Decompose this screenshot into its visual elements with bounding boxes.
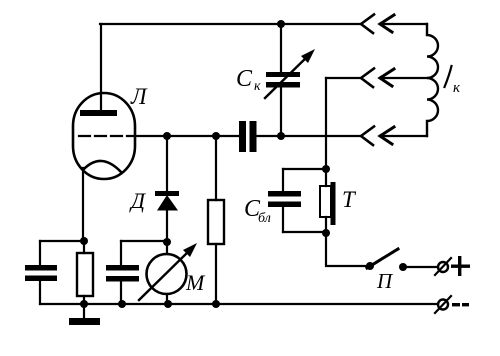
connector chevrons top tap	[361, 15, 374, 34]
svg-text:М: М	[185, 270, 206, 295]
capacitor Ck variable arrow	[265, 55, 309, 98]
svg-text:Л: Л	[130, 84, 148, 109]
node C2 bottom	[118, 300, 126, 308]
switch П pivot node	[366, 262, 374, 270]
resistor R2 leads	[215, 136, 217, 304]
wire top tap to coil	[380, 23, 427, 25]
wire grid line to bottom tap	[256, 135, 360, 137]
wire switch to plus terminal	[404, 266, 438, 268]
diode Д cathode bar	[155, 191, 179, 196]
terminal plus circle	[438, 262, 448, 272]
tube anode bar	[80, 110, 117, 116]
capacitor Ck branch wire	[280, 24, 282, 136]
tube grid (dashed)	[79, 135, 135, 137]
switch П lever	[367, 249, 398, 268]
node top junction at Ck	[277, 20, 285, 28]
wire top horizontal (anode to top tap)	[100, 23, 360, 25]
node grid-diode junction	[163, 132, 171, 140]
svg-text:C: C	[236, 66, 253, 92]
label plus sign	[458, 256, 461, 276]
terminal minus slash	[435, 296, 451, 313]
terminal plus slash	[435, 258, 451, 275]
capacitor C1 plates	[25, 265, 57, 271]
diode Д lower lead	[166, 210, 168, 242]
wire anode lead	[100, 24, 102, 110]
node T top	[322, 165, 330, 173]
wire middle tap drop (x=326)	[325, 78, 327, 169]
node grid-R2 junction	[212, 132, 220, 140]
node M bottom	[164, 300, 172, 308]
node T bottom	[322, 229, 330, 237]
wire Cbl bottom horizontal	[283, 231, 326, 233]
op tube Л envelope	[73, 93, 135, 179]
resistor R1 leads	[83, 241, 85, 304]
capacitor Cbl branch	[282, 169, 284, 232]
connector chevrons bottom tap	[361, 127, 374, 146]
node at Ck bottom	[277, 132, 285, 140]
label minus sign	[452, 303, 460, 306]
resistor R2 body	[208, 200, 224, 244]
switch П right contact node	[399, 263, 407, 271]
terminal minus circle	[438, 300, 448, 310]
svg-text:T: T	[342, 187, 357, 212]
wire bottom rail	[40, 303, 438, 305]
capacitor C2 branch	[120, 241, 122, 304]
svg-text:к: к	[453, 80, 461, 96]
label lk	[445, 66, 452, 87]
earphone T thick side bar	[331, 182, 336, 225]
node diode bottom junction	[163, 238, 171, 246]
capacitor Cbl plates	[268, 191, 301, 197]
inductor Lk coil	[427, 24, 438, 136]
diode Д triangle	[157, 195, 178, 211]
earphone T leads	[325, 169, 327, 233]
svg-text:бл: бл	[258, 211, 271, 226]
node ground junction	[80, 300, 88, 308]
wire cathode lead	[82, 168, 84, 241]
capacitor Ck plates	[266, 72, 300, 77]
microphone M arrow	[139, 249, 191, 300]
node cathode junction	[80, 237, 88, 245]
resistor R1 body	[77, 253, 93, 296]
capacitor C2 plates	[106, 265, 139, 271]
wire middle tap	[326, 77, 360, 79]
wire node to C2	[121, 240, 167, 242]
diode Д lead	[166, 136, 168, 191]
svg-text:П: П	[376, 269, 394, 293]
svg-text:Д: Д	[129, 188, 146, 213]
capacitor C1 branch	[39, 241, 41, 304]
ground bar	[69, 318, 100, 325]
microphone M leads	[166, 242, 168, 304]
wire bottom tap to coil	[380, 135, 427, 137]
wire cathode node to C1	[40, 240, 84, 242]
wire Cbl top horizontal	[283, 168, 326, 170]
connector chevrons middle tap	[361, 69, 374, 88]
wire to switch	[326, 233, 369, 266]
capacitor coupling (grid) plates	[239, 121, 246, 152]
wire grid horizontal	[135, 135, 239, 137]
wire middle tap to coil	[380, 77, 427, 79]
ground stem	[83, 304, 85, 318]
svg-text:к: к	[254, 79, 261, 94]
earphone T body	[320, 186, 331, 217]
node R2 bottom	[212, 300, 220, 308]
microphone M circle	[147, 254, 187, 294]
tube cathode arc	[83, 161, 121, 172]
